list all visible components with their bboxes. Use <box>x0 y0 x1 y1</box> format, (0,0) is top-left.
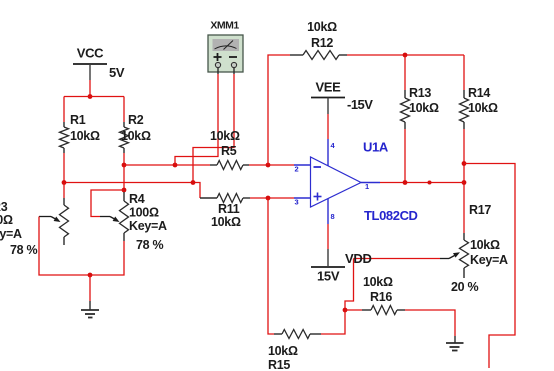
svg-text:U1A: U1A <box>363 140 389 155</box>
svg-text:10kΩ: 10kΩ <box>409 101 439 115</box>
svg-text:Key=A: Key=A <box>0 227 22 241</box>
node E junction <box>266 163 271 168</box>
pin 1 lead <box>361 182 380 184</box>
resistor R13 <box>401 55 439 129</box>
svg-text:R16: R16 <box>370 290 392 304</box>
resistor R16 <box>345 275 405 315</box>
wire node B to R3 top <box>63 183 65 199</box>
wire XMM1 minus lead down <box>193 74 234 183</box>
svg-text:10kΩ: 10kΩ <box>468 101 498 115</box>
svg-text:R14: R14 <box>468 86 490 100</box>
svg-text:-15V: -15V <box>347 97 373 112</box>
wire R1 bottom to node B <box>63 153 65 183</box>
resistor R12 <box>290 20 347 60</box>
wire R5 to opamp inverting input <box>249 164 294 166</box>
svg-text:R12: R12 <box>311 36 333 50</box>
svg-text:10kΩ: 10kΩ <box>363 275 393 289</box>
power VDD symbol <box>311 249 345 284</box>
node B junction <box>62 180 67 185</box>
resistor R11 <box>200 194 250 230</box>
ground left <box>81 275 99 318</box>
svg-text:VCC: VCC <box>77 46 104 61</box>
svg-text:R2: R2 <box>128 113 144 127</box>
svg-text:TL082CD: TL082CD <box>364 208 418 223</box>
svg-text:10kΩ: 10kΩ <box>70 129 100 143</box>
node N junction <box>428 181 432 185</box>
node H junction <box>122 188 127 193</box>
svg-text:VDD: VDD <box>345 251 372 266</box>
svg-text:R17: R17 <box>469 203 491 217</box>
resistor R15 <box>268 330 321 371</box>
svg-text:R5: R5 <box>221 144 237 158</box>
potentiometer R17 <box>440 203 508 294</box>
svg-text:78 %: 78 % <box>10 243 37 257</box>
power VEE <box>311 80 373 115</box>
wire to R1 top <box>63 97 65 123</box>
svg-text:5V: 5V <box>109 65 125 80</box>
wire node G down to R15 <box>268 198 274 334</box>
svg-text:20 %: 20 % <box>451 280 478 294</box>
wire node P down to R15 <box>321 310 345 334</box>
wire R2 bottom to node C <box>123 153 125 165</box>
svg-text:R3: R3 <box>0 200 8 214</box>
node D junction <box>173 163 178 168</box>
wire VEE to pin 4 <box>327 114 329 139</box>
svg-text:R15: R15 <box>268 358 290 371</box>
wire R14 bottom to R17 top <box>463 129 465 233</box>
wire VCC rail horizontal <box>64 96 124 98</box>
svg-text:Key=A: Key=A <box>129 219 167 233</box>
wire VCC to node A <box>89 80 91 97</box>
svg-text:10kΩ: 10kΩ <box>211 215 241 229</box>
op-amp U1A <box>311 140 418 224</box>
wire node C to R5 <box>124 164 210 166</box>
wire node K to right edge down <box>464 164 515 369</box>
wire VDD net down to R15 R16 node <box>345 259 354 311</box>
node A junction <box>88 94 93 99</box>
node K junction <box>462 161 467 166</box>
node J junction <box>403 53 408 58</box>
pin 4 lead <box>327 139 329 166</box>
svg-text:XMM1: XMM1 <box>210 20 239 32</box>
svg-text:10kΩ: 10kΩ <box>470 238 500 252</box>
wire R13 bottom to output row <box>404 129 406 183</box>
svg-text:8: 8 <box>331 212 335 221</box>
potentiometer R4 <box>100 192 167 252</box>
svg-text:VEE: VEE <box>315 80 341 95</box>
svg-text:100Ω: 100Ω <box>129 206 159 220</box>
wire VDD net to R17 wiper <box>354 258 441 260</box>
svg-text:R11: R11 <box>218 202 240 216</box>
resistor R1 <box>60 113 100 153</box>
wire node B row <box>64 183 200 199</box>
node L junction <box>462 180 467 185</box>
node F junction <box>191 180 196 185</box>
power VCC <box>73 46 125 81</box>
svg-text:100Ω: 100Ω <box>0 213 13 227</box>
pin 3 lead <box>294 197 311 199</box>
node M junction <box>403 180 408 185</box>
resistor R14 <box>460 55 498 129</box>
wire node C to R4 <box>123 165 125 190</box>
svg-text:10kΩ: 10kΩ <box>268 344 298 358</box>
svg-text:10kΩ: 10kΩ <box>121 129 151 143</box>
wire R4 wiper loop <box>91 190 124 217</box>
svg-text:10kΩ: 10kΩ <box>307 20 337 34</box>
svg-text:R1: R1 <box>70 113 86 127</box>
wire opamp output <box>380 182 464 184</box>
multimeter XMM1 <box>208 20 243 75</box>
pin 8 lead <box>327 199 329 225</box>
svg-text:10kΩ: 10kΩ <box>210 129 240 143</box>
svg-text:R4: R4 <box>129 192 145 206</box>
ground right <box>446 336 464 351</box>
svg-text:2: 2 <box>295 165 299 174</box>
svg-text:1: 1 <box>365 182 369 191</box>
wire R4 bottom to ground rail <box>90 241 124 275</box>
node I junction <box>88 273 93 278</box>
node C junction <box>122 163 127 168</box>
wire R16 to ground <box>405 310 455 336</box>
wire XMM1 plus lead down <box>175 74 218 165</box>
potentiometer R3 <box>0 198 69 257</box>
wire to R2 top <box>123 97 125 123</box>
svg-text:Key=A: Key=A <box>470 253 508 267</box>
wire R11 to opamp noninverting input <box>250 197 294 199</box>
svg-text:78 %: 78 % <box>136 238 163 252</box>
node P junction <box>343 308 348 313</box>
resistor R5 <box>210 129 249 170</box>
wire R12 right to R14 top <box>347 54 464 56</box>
wire pin 8 to VDD symbol <box>327 224 329 249</box>
resistor R2 <box>120 113 151 153</box>
wire feedback from R12 left <box>268 55 290 165</box>
wire R3 wiper down to ground rail <box>39 217 90 276</box>
svg-text:15V: 15V <box>317 269 340 284</box>
node G junction <box>266 196 271 201</box>
svg-text:3: 3 <box>295 198 299 207</box>
pin 2 lead <box>294 164 311 166</box>
svg-text:R13: R13 <box>409 86 431 100</box>
